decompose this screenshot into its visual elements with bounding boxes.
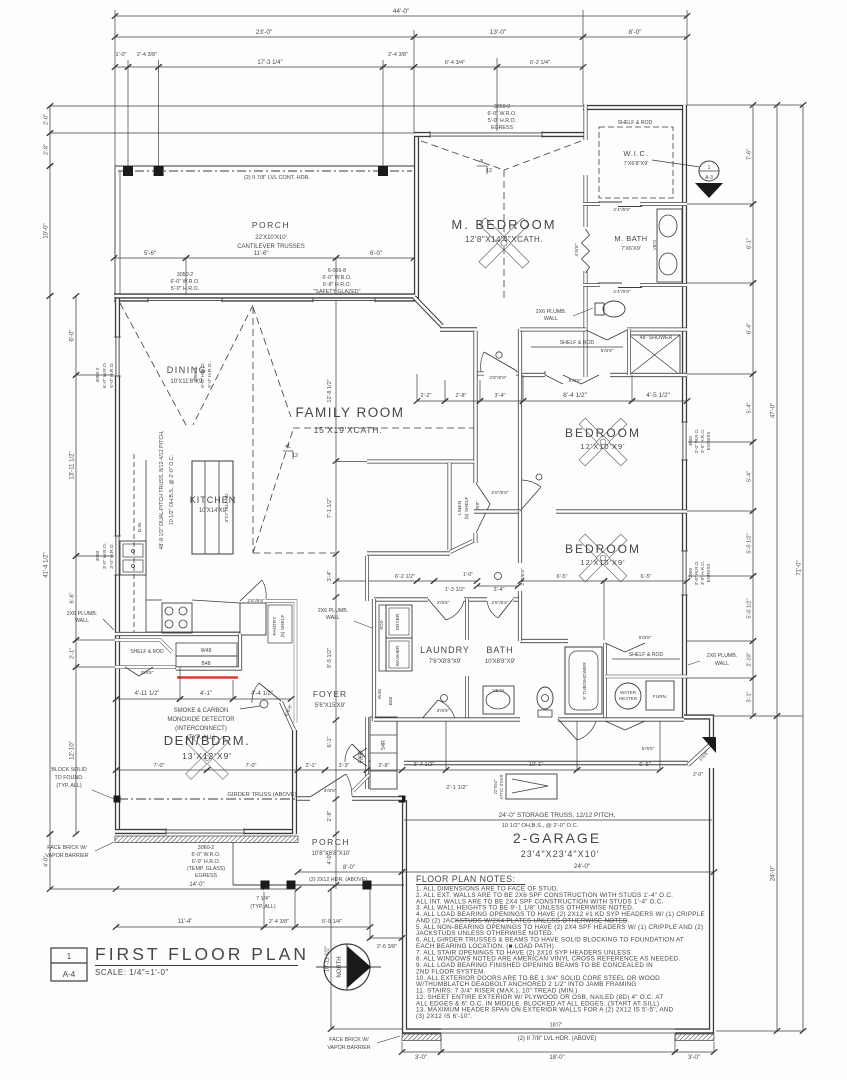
window bedroom2 right 3060 bbox=[681, 551, 688, 595]
svg-text:A-3: A-3 bbox=[705, 175, 713, 181]
wall: garage top y763 bbox=[404, 761, 688, 766]
svg-text:3050-2: 3050-2 bbox=[177, 272, 194, 278]
laundry top door bbox=[428, 599, 464, 620]
svg-text:6'-0" H.R.O.: 6'-0" H.R.O. bbox=[192, 859, 220, 865]
svg-text:6'-0" W.R.O.: 6'-0" W.R.O. bbox=[191, 852, 220, 858]
floor plan notes heading bbox=[416, 874, 525, 885]
block solid note bbox=[51, 767, 114, 799]
garage corner angled door bbox=[688, 737, 716, 765]
svg-text:18'/7': 18'/7' bbox=[550, 1022, 563, 1028]
svg-text:22"X54": 22"X54" bbox=[493, 779, 498, 795]
svg-text:2'8"/6'8": 2'8"/6'8" bbox=[491, 490, 509, 496]
svg-text:10 1/2" OH.B.S., @ 2'-0" O.C.: 10 1/2" OH.B.S., @ 2'-0" O.C. bbox=[502, 823, 579, 829]
svg-text:2'-4 3/8": 2'-4 3/8" bbox=[269, 919, 289, 925]
room label FAMILY ROOM bbox=[295, 405, 404, 435]
kitchen counter dashed uppers bbox=[134, 454, 146, 632]
den interior dim row y770 bbox=[113, 763, 301, 773]
svg-text:1: 1 bbox=[67, 952, 72, 961]
ceiling fan bedroom2 bbox=[579, 534, 627, 582]
wall: foyer/den angled bbox=[281, 702, 294, 730]
svg-text:9'-5 1/2": 9'-5 1/2" bbox=[327, 648, 333, 668]
leader to section marker bbox=[652, 160, 700, 167]
svg-text:B36: B36 bbox=[388, 696, 394, 705]
svg-text:CANTILEVER TRUSSES: CANTILEVER TRUSSES bbox=[237, 244, 305, 250]
svg-text:8'-0": 8'-0" bbox=[629, 29, 643, 36]
leader face brick garage bbox=[327, 1036, 400, 1051]
svg-text:41'-4 1/2": 41'-4 1/2" bbox=[44, 552, 50, 577]
svg-text:FOYER: FOYER bbox=[313, 689, 347, 699]
ceiling fan den bbox=[186, 737, 229, 780]
svg-text:10'8"X6'8"X10': 10'8"X6'8"X10' bbox=[311, 851, 350, 857]
right outer chain 71 bbox=[797, 102, 807, 1034]
svg-text:6'-8" H.R.O.: 6'-8" H.R.O. bbox=[323, 282, 351, 288]
svg-text:24'-0": 24'-0" bbox=[574, 863, 591, 870]
label 24/68 toilet door bbox=[613, 289, 631, 295]
svg-text:5'-0" H.R.O.: 5'-0" H.R.O. bbox=[488, 118, 516, 124]
label 48 shower bbox=[640, 335, 673, 341]
wall: bedroom divider y511 bbox=[474, 509, 687, 513]
den hall dim row y699 bbox=[113, 667, 294, 702]
wall: right exterior wall upper bbox=[682, 105, 687, 718]
svg-text:W.I.C.: W.I.C. bbox=[623, 149, 648, 158]
svg-text:VB48: VB48 bbox=[492, 688, 504, 694]
room label DEN/BDRM bbox=[164, 733, 250, 761]
svg-text:3'/6'8": 3'/6'8" bbox=[437, 600, 450, 606]
closet V door bottom bbox=[605, 635, 652, 652]
svg-text:4L: 4L bbox=[285, 444, 291, 450]
wall: WIC/MBATH block top bbox=[583, 105, 687, 110]
dim 44'-0" overall top bbox=[112, 8, 690, 19]
label 24/68 wic door bbox=[613, 207, 631, 213]
wall: den bottom exterior bbox=[115, 829, 296, 834]
wall: M.BEDROOM top bbox=[414, 132, 586, 137]
svg-text:2'-4 3/8": 2'-4 3/8" bbox=[388, 52, 408, 58]
linen bifold door V bbox=[476, 483, 491, 543]
svg-text:18'-0": 18'-0" bbox=[549, 1055, 564, 1061]
svg-text:WALL: WALL bbox=[544, 316, 558, 322]
svg-text:SHELF & ROD: SHELF & ROD bbox=[629, 652, 664, 658]
label 28/68 mbed door bbox=[489, 375, 507, 381]
svg-text:48" SHOWER: 48" SHOWER bbox=[640, 335, 673, 341]
label 4/68 rot foyer-den bbox=[284, 703, 295, 717]
window M.BED top 3050-2 bbox=[430, 131, 542, 138]
dim row garage top y770 bbox=[399, 721, 663, 773]
svg-text:5'/6'8": 5'/6'8" bbox=[569, 378, 582, 384]
wall: M.BED bottom + angle bbox=[414, 297, 477, 330]
svg-text:4'/6'8": 4'/6'8" bbox=[574, 243, 580, 256]
svg-text:5'-4": 5'-4" bbox=[747, 471, 753, 482]
svg-text:12'X10'X9': 12'X10'X9' bbox=[580, 442, 625, 451]
wall: hall left x475.5 bbox=[473, 331, 477, 483]
front door leaf + arc bbox=[310, 774, 352, 797]
wall: foyer bottom w/ front door bbox=[297, 796, 402, 800]
svg-text:(INTERCONNECT): (INTERCONNECT) bbox=[175, 726, 227, 732]
svg-text:EGRESS: EGRESS bbox=[706, 564, 711, 583]
svg-text:3060: 3060 bbox=[688, 567, 693, 578]
left outer dim chain bbox=[44, 103, 54, 892]
dim row y927 bbox=[113, 845, 373, 940]
wall: garage bottom left part bbox=[405, 800, 442, 1031]
svg-text:SCALE: 1/4"=1'-0": SCALE: 1/4"=1'-0" bbox=[95, 968, 169, 977]
svg-text:7'X6'X9': 7'X6'X9' bbox=[621, 246, 641, 252]
kitchen range bbox=[162, 603, 192, 633]
WIC dashed shelf bbox=[599, 127, 673, 198]
svg-text:BATH: BATH bbox=[486, 645, 513, 655]
wall: garage right bbox=[675, 768, 712, 1031]
window left dining 3050-2 bbox=[114, 337, 121, 376]
garage door opening sill bbox=[441, 1029, 675, 1033]
svg-text:11'-4": 11'-4" bbox=[178, 919, 193, 925]
mbed door leaf + arc bbox=[481, 352, 517, 372]
label 4L/12 family bbox=[283, 444, 298, 459]
tub 5ft bbox=[565, 647, 602, 714]
dim extension lines top bbox=[50, 10, 803, 168]
furnace bbox=[646, 681, 674, 710]
bottom dim row bbox=[399, 1035, 717, 1061]
pantry box bbox=[266, 601, 296, 723]
wall: bedroom2 left x520 bbox=[518, 511, 522, 641]
label W48 B36 rot bbox=[377, 689, 394, 706]
svg-text:SHELF & ROD: SHELF & ROD bbox=[560, 340, 595, 346]
kitchen island bbox=[192, 461, 233, 554]
svg-text:FIRST FLOOR PLAN: FIRST FLOOR PLAN bbox=[95, 944, 309, 964]
svg-text:3'-0" W.R.O.: 3'-0" W.R.O. bbox=[694, 561, 699, 586]
garage lvl hdr note bbox=[518, 1036, 597, 1042]
window label 3050-2 front left bbox=[170, 272, 199, 292]
svg-text:44'-0": 44'-0" bbox=[393, 8, 410, 15]
dim row foyer y770 bbox=[295, 763, 405, 773]
svg-text:PORCH: PORCH bbox=[252, 220, 290, 230]
svg-text:6'-6": 6'-6" bbox=[70, 592, 76, 603]
svg-text:6'-4": 6'-4" bbox=[747, 323, 753, 334]
svg-text:GIRDER TRUSS (ABOVE): GIRDER TRUSS (ABOVE) bbox=[227, 792, 296, 798]
center vertical dim chain x336 bbox=[327, 300, 339, 889]
svg-text:3'-0": 3'-0" bbox=[688, 1055, 700, 1061]
svg-text:2'6"/6'8": 2'6"/6'8" bbox=[520, 568, 526, 586]
cathedral ridge dashed y428 bbox=[293, 427, 474, 429]
svg-text:3'-0" W.R.O.: 3'-0" W.R.O. bbox=[102, 543, 108, 569]
room label KITCHEN bbox=[190, 495, 237, 514]
svg-text:3'-0" H.R.O.: 3'-0" H.R.O. bbox=[700, 561, 705, 585]
bath vanity VB48 bbox=[483, 686, 514, 714]
fridge box bbox=[240, 603, 266, 635]
floor plan notes text bbox=[416, 886, 705, 1029]
wall: WIC left / MBATH left bbox=[584, 105, 588, 377]
laundry door bottom bbox=[420, 695, 455, 722]
wall: linen west x449.5 bbox=[448, 463, 452, 550]
svg-text:6'-0": 6'-0" bbox=[70, 330, 76, 342]
svg-text:7'6"X8'8"X9': 7'6"X8'8"X9' bbox=[429, 659, 461, 665]
dim 2-6 3/8 bbox=[367, 935, 405, 950]
svg-text:6'-0" W.R.O.: 6'-0" W.R.O. bbox=[170, 279, 199, 285]
svg-text:W48: W48 bbox=[201, 648, 212, 654]
svg-text:1'-3 1/2": 1'-3 1/2" bbox=[445, 587, 465, 593]
svg-text:5'-0 1/2": 5'-0 1/2" bbox=[747, 533, 753, 553]
wall: left exterior wall bbox=[115, 296, 120, 833]
svg-text:3'/6'8": 3'/6'8" bbox=[324, 788, 337, 794]
svg-text:6'-0": 6'-0" bbox=[370, 251, 382, 257]
svg-text:5'/6'8": 5'/6'8" bbox=[639, 635, 652, 641]
svg-text:(5) SHELF: (5) SHELF bbox=[280, 615, 286, 638]
svg-text:(5) SHELF: (5) SHELF bbox=[464, 497, 470, 520]
svg-text:7 1/4": 7 1/4" bbox=[256, 896, 270, 902]
svg-text:2'-2": 2'-2" bbox=[421, 393, 432, 399]
svg-text:10'-1": 10'-1" bbox=[529, 762, 544, 768]
bath top door bbox=[487, 599, 513, 618]
window label kitchen outside rotated bbox=[95, 543, 115, 569]
wall: MBATH / toilet divider bbox=[583, 283, 687, 288]
label 2x6 plumb wall mbed bbox=[536, 308, 593, 322]
girder truss line bbox=[114, 792, 406, 803]
stairs 54R box bbox=[370, 717, 397, 789]
svg-text:47'-0": 47'-0" bbox=[771, 403, 777, 418]
svg-text:3'-0" H.R.O.: 3'-0" H.R.O. bbox=[700, 429, 705, 453]
svg-text:6'-2 1/2": 6'-2 1/2" bbox=[395, 574, 415, 580]
svg-text:5'/6'8": 5'/6'8" bbox=[357, 751, 362, 763]
svg-text:6'-4 3/4": 6'-4 3/4" bbox=[445, 60, 465, 66]
svg-text:10 1/2" OH.B.S., @ 2'-0" O.C.: 10 1/2" OH.B.S., @ 2'-0" O.C. bbox=[169, 455, 175, 525]
svg-text:12'-10": 12'-10" bbox=[70, 741, 76, 760]
right inner dim chain bbox=[747, 102, 757, 719]
svg-text:2'-1": 2'-1" bbox=[70, 648, 76, 659]
svg-text:5'-0" H.R.O.: 5'-0" H.R.O. bbox=[109, 362, 115, 388]
svg-text:ROD: ROD bbox=[379, 620, 384, 629]
closet shelf&rod bottom bbox=[605, 652, 687, 677]
svg-text:VB72: VB72 bbox=[652, 239, 657, 250]
svg-text:1: 1 bbox=[708, 165, 711, 171]
den shelf closet bbox=[115, 640, 176, 667]
svg-text:23'-0": 23'-0" bbox=[256, 29, 273, 36]
svg-text:M. BATH: M. BATH bbox=[614, 234, 647, 243]
den door arc SE bbox=[252, 683, 281, 703]
label PANTRY rotated bbox=[272, 615, 286, 638]
svg-text:11'-6": 11'-6" bbox=[254, 251, 269, 257]
porch post P1 bbox=[123, 166, 133, 176]
svg-text:(2) II 7/8" LVL HDR. (ABOVE): (2) II 7/8" LVL HDR. (ABOVE) bbox=[518, 1036, 597, 1042]
svg-text:6'-0" W.R.O.: 6'-0" W.R.O. bbox=[487, 111, 516, 117]
window label dining inside rotated bbox=[193, 362, 213, 388]
leader face brick den bbox=[45, 842, 114, 859]
svg-text:2'4"/6'8": 2'4"/6'8" bbox=[613, 207, 631, 213]
svg-text:(TYP. ALL): (TYP. ALL) bbox=[250, 904, 275, 910]
svg-text:2'-1 1/2": 2'-1 1/2" bbox=[446, 785, 467, 791]
svg-text:3060-2: 3060-2 bbox=[198, 845, 215, 851]
svg-text:48'-8 1/2" DUAL-PITCH TRUSS, 8: 48'-8 1/2" DUAL-PITCH TRUSS, 8/12-4/12 P… bbox=[159, 430, 165, 549]
svg-text:13'-0": 13'-0" bbox=[490, 29, 507, 36]
svg-text:6'-5": 6'-5" bbox=[641, 574, 652, 580]
svg-text:2'-8": 2'-8" bbox=[379, 763, 390, 769]
dim row 6-4 3/4, 6-2 1/4 bbox=[411, 60, 586, 70]
closet V door hall y719 bbox=[605, 721, 655, 752]
svg-text:12'X10'X9': 12'X10'X9' bbox=[580, 558, 625, 567]
svg-text:D.W.: D.W. bbox=[137, 522, 143, 532]
svg-text:KITCHEN: KITCHEN bbox=[190, 495, 237, 505]
svg-text:A-4: A-4 bbox=[63, 970, 76, 979]
kitchen sink bbox=[120, 541, 146, 575]
svg-text:SMOKE & CARBON: SMOKE & CARBON bbox=[174, 708, 229, 714]
stair closet bifold V bbox=[353, 748, 367, 766]
svg-text:14'-0": 14'-0" bbox=[189, 882, 204, 888]
svg-text:2X6 PLUMB.: 2X6 PLUMB. bbox=[67, 611, 98, 617]
title block box bbox=[51, 948, 87, 981]
washer dryer bbox=[379, 605, 412, 671]
svg-text:1'-0": 1'-0" bbox=[463, 572, 473, 578]
window label bed2 right rotated bbox=[688, 561, 711, 586]
wall: M.BEDROOM left wall bbox=[114, 132, 417, 296]
wall: hall top w/ mbed door y373 bbox=[477, 372, 520, 376]
svg-text:2'6"/6'8": 2'6"/6'8" bbox=[491, 600, 509, 606]
svg-text:5'-0 1/2": 5'-0 1/2" bbox=[747, 598, 753, 618]
svg-text:3'-1": 3'-1" bbox=[747, 691, 753, 702]
svg-text:DEN/BDRM.: DEN/BDRM. bbox=[164, 733, 250, 748]
svg-text:13'X12'X9': 13'X12'X9' bbox=[182, 751, 232, 761]
bedroom shelf closet walls bbox=[520, 329, 687, 375]
svg-text:BLOCK SOLID: BLOCK SOLID bbox=[51, 767, 86, 773]
ceiling fan bedroom1 bbox=[579, 418, 627, 466]
label shelf&rod bed closet bbox=[531, 340, 623, 347]
svg-text:BEDROOM: BEDROOM bbox=[565, 542, 641, 556]
svg-text:6'-0" W.R.O.: 6'-0" W.R.O. bbox=[102, 362, 108, 388]
svg-text:12'-8 1/2": 12'-8 1/2" bbox=[327, 379, 333, 402]
porch post P3 bbox=[378, 166, 388, 176]
svg-text:3'/6'8": 3'/6'8" bbox=[141, 670, 154, 676]
room label BEDROOM 2 bbox=[565, 542, 641, 567]
svg-text:WALL: WALL bbox=[715, 661, 729, 667]
svg-text:5'6"X15'X9': 5'6"X15'X9' bbox=[315, 703, 345, 709]
dim 8-0 porch bbox=[295, 865, 405, 875]
detector circle hall bbox=[495, 573, 502, 580]
detector circle den bbox=[240, 700, 268, 709]
svg-text:5'-0" H.R.O.: 5'-0" H.R.O. bbox=[207, 362, 213, 388]
svg-text:W48: W48 bbox=[377, 689, 383, 699]
label 2x6 plumb right bbox=[688, 653, 737, 667]
svg-text:3050: 3050 bbox=[95, 550, 101, 561]
wall: tub right / closet left x605 bbox=[603, 643, 607, 721]
room label BEDROOM 1 bbox=[565, 426, 641, 451]
svg-text:3'-0": 3'-0" bbox=[415, 1055, 427, 1061]
svg-text:PORCH: PORCH bbox=[312, 837, 350, 847]
svg-text:2'-0": 2'-0" bbox=[693, 772, 703, 778]
svg-text:6'-1": 6'-1" bbox=[327, 736, 333, 747]
dim 14-0 bbox=[113, 882, 301, 892]
title scale bbox=[95, 968, 169, 977]
label 28/68 bed2 door bbox=[491, 490, 509, 496]
svg-text:54R: 54R bbox=[381, 740, 387, 750]
wall: bed2 bottom y641 bbox=[520, 639, 568, 643]
label 2x6 plumb left bbox=[67, 611, 114, 630]
brick veneer hatch den bottom bbox=[115, 836, 298, 843]
toilet M.BATH bbox=[595, 301, 625, 317]
svg-text:5'-9 1/4": 5'-9 1/4" bbox=[322, 919, 342, 925]
svg-text:WASHER: WASHER bbox=[395, 645, 401, 666]
svg-text:VAPOR BARRIER: VAPOR BARRIER bbox=[45, 853, 88, 859]
label 26/68 rot hall bbox=[520, 568, 526, 586]
svg-text:3'-0" H.R.O.: 3'-0" H.R.O. bbox=[109, 543, 115, 569]
porch header 2x12 bbox=[233, 877, 404, 890]
kitchen cabinets W48 B48 bbox=[176, 643, 237, 669]
shower 48 bbox=[629, 335, 680, 375]
garage truss note bbox=[499, 812, 616, 829]
svg-text:2'-4 3/8": 2'-4 3/8" bbox=[137, 52, 157, 58]
svg-text:2'-10": 2'-10" bbox=[747, 652, 753, 666]
wall: kitchen bottom y634 bbox=[115, 632, 240, 636]
label D.W. bbox=[137, 522, 143, 532]
attic stair bbox=[493, 774, 557, 799]
wall: rear hall bottom y719 bbox=[374, 717, 684, 721]
svg-text:7'-1 1/2": 7'-1 1/2" bbox=[327, 498, 333, 518]
svg-text:3'-4 1/2": 3'-4 1/2" bbox=[413, 762, 434, 768]
svg-text:2'8"/6'8": 2'8"/6'8" bbox=[489, 375, 507, 381]
dim row bedroom top y401 bbox=[414, 392, 690, 404]
window front-left 3050-2 bbox=[148, 296, 222, 303]
rear hall door to garage bbox=[558, 719, 596, 740]
svg-text:8'-4 1/2": 8'-4 1/2" bbox=[563, 392, 587, 399]
svg-text:5'/6'8": 5'/6'8" bbox=[642, 746, 655, 752]
brick hatch garage bottom bbox=[402, 1034, 714, 1041]
label 4/68 mbath door bbox=[574, 243, 580, 256]
ext stubs y401 row bbox=[417, 374, 632, 401]
porch LVL header dash-dot bbox=[118, 170, 412, 172]
svg-text:3'-3": 3'-3" bbox=[339, 763, 350, 769]
left inner dim chain bbox=[50, 293, 116, 889]
svg-text:FURN.: FURN. bbox=[653, 694, 668, 700]
window left kitchen 3050 bbox=[114, 536, 121, 575]
svg-text:VAPOR BARRIER: VAPOR BARRIER bbox=[327, 1045, 370, 1051]
label LINEN (5) SHELF bbox=[457, 497, 480, 520]
svg-text:4'-11 1/2": 4'-11 1/2" bbox=[135, 691, 160, 697]
svg-text:17'-3 1/4": 17'-3 1/4" bbox=[257, 60, 282, 66]
svg-text:LINEN: LINEN bbox=[457, 500, 463, 515]
svg-text:EGRESS: EGRESS bbox=[706, 432, 711, 451]
svg-text:MONOXIDE DETECTOR: MONOXIDE DETECTOR bbox=[167, 717, 235, 723]
wall: stair closet diagonal bbox=[353, 775, 369, 791]
svg-text:WATER: WATER bbox=[620, 690, 637, 695]
wall: foyer right x367 bbox=[365, 556, 369, 789]
svg-text:5'-4": 5'-4" bbox=[747, 402, 753, 413]
svg-text:NORTH: NORTH bbox=[337, 956, 343, 977]
right dim extension stubs bbox=[687, 204, 803, 1031]
svg-text:FLOOR PLAN NOTES:: FLOOR PLAN NOTES: bbox=[416, 874, 515, 884]
section marker A-3 bbox=[695, 161, 723, 198]
svg-text:3'-4": 3'-4" bbox=[494, 587, 505, 593]
svg-text:2X6 PLUMB.: 2X6 PLUMB. bbox=[707, 653, 738, 659]
svg-text:(2) II 7/8" LVL CONT. HDR.: (2) II 7/8" LVL CONT. HDR. bbox=[244, 175, 311, 181]
svg-text:15'X19'XCATH.: 15'X19'XCATH. bbox=[314, 425, 383, 435]
svg-text:5'-6": 5'-6" bbox=[144, 251, 156, 257]
svg-text:2'6"/6'8": 2'6"/6'8" bbox=[247, 598, 265, 604]
kitchen counter south bbox=[146, 600, 240, 632]
svg-text:EGRESS: EGRESS bbox=[195, 873, 218, 879]
svg-text:LAUNDRY: LAUNDRY bbox=[420, 645, 470, 655]
svg-text:5' TUB/SHOWER: 5' TUB/SHOWER bbox=[582, 662, 588, 700]
svg-text:2'-1": 2'-1" bbox=[306, 763, 317, 769]
ceiling fan mbed bbox=[479, 218, 529, 268]
room label 2-GARAGE bbox=[513, 830, 601, 859]
window label den bottom bbox=[187, 845, 225, 879]
svg-text:DRYER: DRYER bbox=[395, 613, 401, 630]
svg-text:22'X10'X10': 22'X10'X10' bbox=[255, 235, 286, 241]
porch slab lines bottom bbox=[233, 799, 402, 885]
svg-text:(TYP. ALL): (TYP. ALL) bbox=[56, 783, 81, 789]
svg-text:8'-0": 8'-0" bbox=[343, 865, 355, 871]
label SHELF & ROD wic bbox=[607, 120, 673, 126]
title FIRST FLOOR PLAN bbox=[95, 944, 309, 966]
window bedroom1 right 3060 bbox=[681, 422, 688, 460]
svg-text:7'X6'8"X9': 7'X6'8"X9' bbox=[624, 161, 649, 167]
truss note rotated kitchen bbox=[159, 430, 175, 549]
dim row mid y581 bbox=[333, 572, 521, 593]
svg-text:5'-0" H.R.O.: 5'-0" H.R.O. bbox=[171, 286, 199, 292]
